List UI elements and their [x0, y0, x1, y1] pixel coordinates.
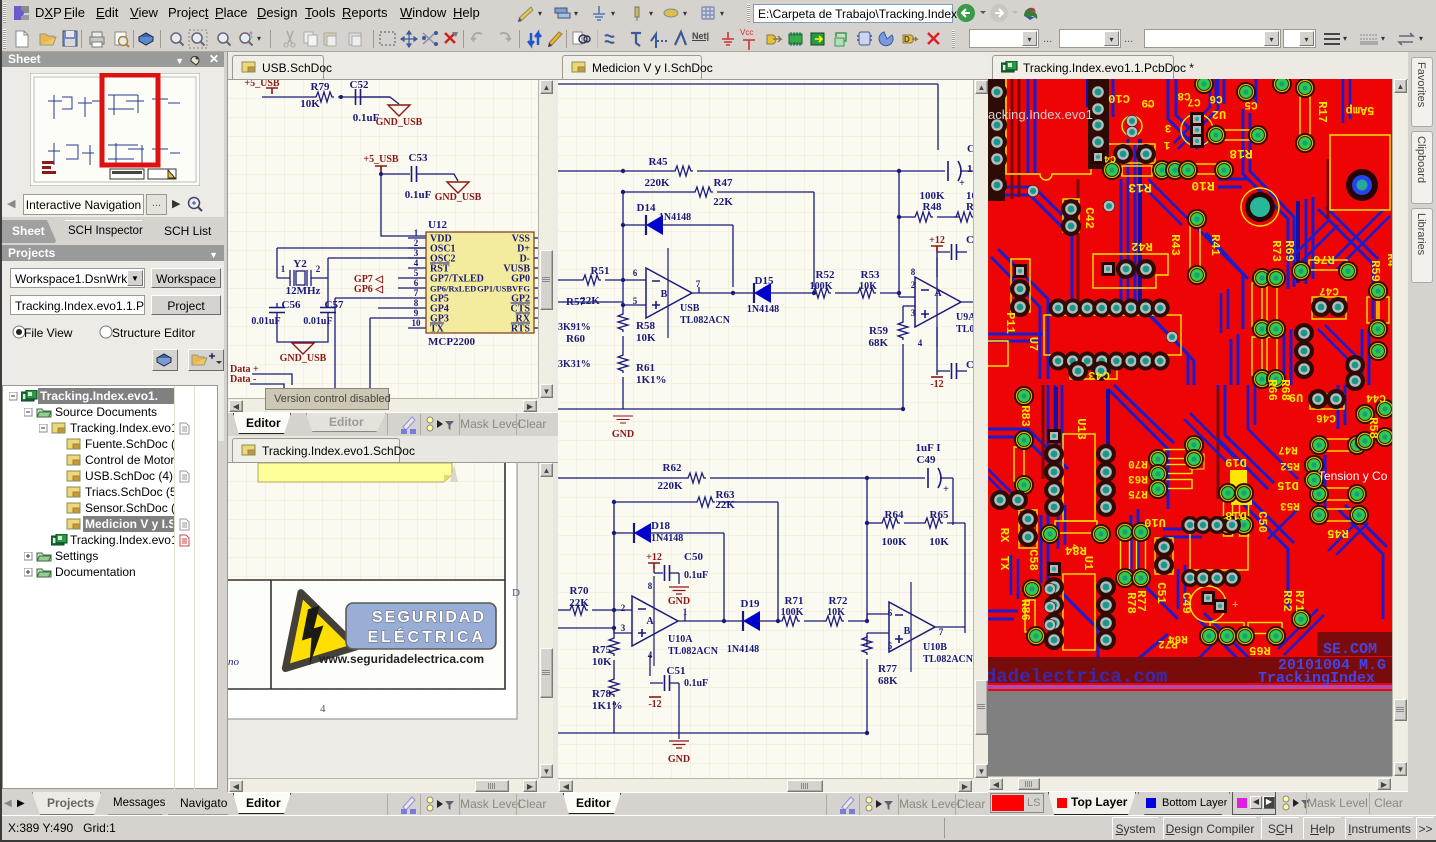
svg-text:1N4148: 1N4148 [651, 533, 683, 544]
svg-text:+12: +12 [646, 552, 662, 563]
svg-text:C43: C43 [1088, 368, 1110, 382]
svg-text:U9A: U9A [956, 312, 973, 323]
svg-text:R43: R43 [1168, 234, 1182, 256]
svg-text:+: + [1146, 102, 1152, 113]
svg-text:100K: 100K [810, 281, 833, 292]
svg-text:R72: R72 [829, 595, 848, 607]
svg-text:10K: 10K [300, 98, 320, 110]
svg-text:D18: D18 [1225, 508, 1247, 522]
svg-text:SE.COM: SE.COM [1323, 641, 1377, 658]
svg-text:R65: R65 [1249, 643, 1271, 657]
svg-text:R71: R71 [785, 595, 804, 607]
svg-text:U2: U2 [1212, 107, 1226, 121]
svg-text:GP1/USBVFG: GP1/USBVFG [477, 284, 530, 294]
svg-text:5Amp: 5Amp [1346, 103, 1375, 117]
svg-text:Tension y Co: Tension y Co [1318, 469, 1388, 483]
svg-text:C4: C4 [966, 234, 973, 246]
svg-text:R72: R72 [1158, 637, 1178, 649]
svg-text:U1: U1 [1081, 556, 1095, 570]
svg-text:no: no [228, 656, 240, 668]
svg-text:C51: C51 [667, 665, 686, 677]
svg-text:4: 4 [320, 703, 326, 715]
svg-text:P11: P11 [1003, 312, 1017, 334]
svg-text:U9: U9 [1289, 390, 1303, 404]
svg-text:6: 6 [633, 268, 638, 278]
svg-text:D18: D18 [651, 520, 670, 532]
svg-text:D15: D15 [755, 275, 774, 287]
svg-text:1: 1 [683, 607, 688, 617]
svg-text:C49: C49 [1179, 592, 1193, 614]
svg-text:ELÉCTRICA: ELÉCTRICA [367, 627, 486, 646]
svg-text:68K: 68K [868, 337, 888, 349]
svg-text:R45: R45 [649, 156, 668, 168]
svg-text:C53: C53 [409, 152, 428, 164]
svg-text:R62: R62 [663, 462, 682, 474]
svg-text:www.seguridadelectrica.com: www.seguridadelectrica.com [318, 652, 484, 666]
svg-text:RX: RX [997, 528, 1011, 543]
svg-text:220K: 220K [657, 480, 683, 492]
svg-text:RTS: RTS [511, 324, 531, 335]
svg-text:3: 3 [1164, 121, 1171, 133]
svg-text:D19: D19 [1225, 455, 1247, 469]
svg-text:R64: R64 [885, 509, 904, 521]
svg-text:R45: R45 [1327, 526, 1349, 540]
svg-text:3: 3 [911, 308, 916, 318]
svg-text:-12: -12 [648, 699, 661, 710]
svg-text:GND_USB: GND_USB [376, 117, 423, 128]
svg-text:R83: R83 [1018, 405, 1032, 427]
svg-text:U10A: U10A [668, 634, 693, 645]
svg-text:10K: 10K [929, 536, 949, 548]
svg-text:GP6 ◁: GP6 ◁ [354, 284, 383, 295]
svg-text:0.1uF: 0.1uF [684, 678, 708, 689]
svg-text:R47: R47 [1278, 443, 1298, 455]
svg-text:2: 2 [621, 603, 626, 613]
svg-text:4: 4 [414, 258, 419, 268]
svg-text:R77: R77 [878, 663, 897, 675]
svg-text:R66: R66 [1265, 379, 1279, 401]
svg-text:R70: R70 [1128, 457, 1148, 469]
svg-text:TL08: TL08 [956, 324, 973, 335]
svg-text:10: 10 [412, 318, 422, 328]
svg-text:R75: R75 [592, 644, 611, 656]
svg-text:C50: C50 [1255, 511, 1269, 533]
svg-text:R71: R71 [1292, 590, 1306, 612]
svg-text:R65: R65 [930, 509, 949, 521]
svg-text:6: 6 [414, 278, 419, 288]
svg-text:0.1uF: 0.1uF [684, 570, 708, 581]
svg-text:TL082ACN: TL082ACN [923, 654, 973, 665]
svg-text:+: + [959, 178, 965, 189]
svg-text:5: 5 [414, 268, 419, 278]
svg-text:U12: U12 [428, 219, 447, 231]
svg-text:R53: R53 [861, 269, 880, 281]
svg-text:TX: TX [430, 324, 445, 335]
svg-text:0.1uF: 0.1uF [405, 189, 432, 201]
svg-text:R42: R42 [1131, 239, 1153, 253]
svg-text:R75: R75 [1128, 487, 1148, 499]
svg-text:acking.Index.evo1: acking.Index.evo1 [988, 107, 1093, 122]
svg-text:R4: R4 [966, 201, 973, 213]
svg-text:R60: R60 [566, 333, 585, 345]
svg-text:1uF I: 1uF I [916, 442, 941, 454]
svg-text:4: 4 [918, 338, 923, 348]
svg-text:R52: R52 [1280, 459, 1300, 471]
svg-text:GND: GND [668, 754, 690, 765]
svg-text:1N4148: 1N4148 [747, 304, 779, 315]
svg-text:100K: 100K [781, 607, 804, 618]
svg-text:R52: R52 [816, 269, 835, 281]
svg-text:GP6/RxLED: GP6/RxLED [430, 284, 476, 294]
svg-text:Y2: Y2 [293, 258, 307, 270]
svg-text:R73: R73 [1269, 240, 1283, 262]
svg-text:R63: R63 [1128, 472, 1148, 484]
svg-text:R41: R41 [1208, 234, 1222, 256]
svg-text:R78: R78 [1124, 592, 1138, 614]
svg-text:4: 4 [1068, 544, 1079, 550]
svg-text:0.01uF: 0.01uF [251, 316, 280, 327]
svg-text:C46: C46 [1316, 411, 1336, 423]
svg-text:Data -: Data - [230, 374, 256, 385]
svg-text:SEGURIDAD: SEGURIDAD [372, 609, 486, 626]
svg-text:R58: R58 [636, 320, 655, 332]
svg-text:+: + [943, 484, 949, 495]
svg-text:D: D [512, 587, 520, 599]
svg-text:U10B: U10B [923, 642, 947, 653]
svg-text:U10: U10 [1144, 515, 1166, 529]
svg-text:C10: C10 [1108, 91, 1130, 105]
svg-text:C4: C4 [966, 359, 973, 371]
svg-text:D19: D19 [741, 598, 760, 610]
svg-text:R53: R53 [1280, 499, 1300, 511]
svg-text:B: B [904, 626, 911, 637]
svg-text:R48: R48 [923, 201, 942, 213]
svg-text:R59: R59 [1368, 260, 1382, 282]
svg-text:TL082ACN: TL082ACN [680, 315, 731, 326]
svg-text:22K: 22K [715, 499, 735, 511]
svg-text:R51: R51 [591, 265, 610, 277]
svg-text:R18: R18 [1229, 146, 1253, 161]
svg-text:10K: 10K [827, 607, 845, 618]
svg-text:22K: 22K [713, 196, 733, 208]
svg-text:12MHz: 12MHz [286, 285, 321, 297]
svg-text:D15: D15 [1277, 478, 1299, 492]
svg-text:3K31%: 3K31% [558, 359, 591, 370]
svg-text:C57: C57 [325, 299, 344, 311]
svg-text:R17: R17 [1315, 101, 1329, 123]
svg-text:3K91%: 3K91% [558, 322, 591, 333]
svg-text:10K: 10K [592, 656, 612, 668]
svg-text:R78: R78 [592, 688, 611, 700]
svg-text:TX: TX [997, 556, 1011, 571]
svg-text:7: 7 [696, 279, 701, 289]
svg-text:MCP2200: MCP2200 [428, 336, 476, 348]
svg-text:C51: C51 [1154, 582, 1168, 604]
svg-text:6: 6 [888, 608, 893, 618]
svg-text:4: 4 [648, 650, 653, 660]
svg-text:R69: R69 [1282, 240, 1296, 262]
svg-text:R58: R58 [1366, 417, 1380, 439]
svg-text:C5: C5 [1244, 98, 1258, 110]
svg-text:C6: C6 [1209, 92, 1222, 104]
svg-text:D14: D14 [637, 202, 656, 214]
svg-text:R4: R4 [1384, 253, 1392, 267]
svg-text:10K: 10K [636, 332, 656, 344]
svg-text:3: 3 [414, 248, 419, 258]
svg-text:C47: C47 [1319, 284, 1339, 296]
svg-text:68K: 68K [878, 675, 898, 687]
svg-text:22K: 22K [569, 597, 589, 609]
svg-text:9: 9 [414, 308, 419, 318]
svg-text:C58: C58 [1026, 549, 1040, 571]
svg-text:2: 2 [414, 238, 419, 248]
svg-text:R70: R70 [570, 585, 589, 597]
svg-text:8: 8 [414, 298, 419, 308]
svg-text:U13: U13 [1074, 418, 1088, 440]
svg-text:GND_USB: GND_USB [435, 192, 482, 203]
svg-text:A: A [646, 616, 654, 627]
svg-text:TrackingIndex: TrackingIndex [1258, 670, 1375, 687]
svg-text:TL082ACN: TL082ACN [668, 646, 719, 657]
svg-text:R59: R59 [869, 325, 888, 337]
svg-text:1N4148: 1N4148 [727, 644, 759, 655]
svg-text:7: 7 [414, 288, 419, 298]
svg-text:C44: C44 [1366, 391, 1386, 403]
svg-text:R13: R13 [1128, 180, 1152, 195]
svg-text:dadelectrica.com: dadelectrica.com [988, 666, 1167, 688]
svg-text:R10: R10 [1191, 178, 1215, 193]
svg-text:U7: U7 [1026, 337, 1040, 351]
svg-text:2: 2 [316, 264, 321, 274]
svg-text:GND: GND [668, 596, 690, 607]
svg-text:R76: R76 [1313, 252, 1335, 266]
svg-text:10K: 10K [859, 281, 877, 292]
svg-text:1N4148: 1N4148 [659, 212, 691, 223]
svg-text:GND_USB: GND_USB [280, 353, 327, 364]
svg-text:8: 8 [648, 581, 653, 591]
svg-text:C4: C4 [1104, 152, 1116, 163]
svg-text:100K: 100K [881, 536, 907, 548]
svg-text:GND: GND [612, 429, 634, 440]
svg-text:R61: R61 [636, 362, 655, 374]
svg-text:220K: 220K [644, 177, 670, 189]
svg-text:C49: C49 [917, 454, 936, 466]
svg-text:C50: C50 [684, 551, 703, 563]
svg-text:R62: R62 [1280, 590, 1294, 612]
svg-text:1K1%: 1K1% [592, 700, 623, 712]
svg-text:1: 1 [1163, 138, 1170, 150]
svg-text:0.01uF: 0.01uF [303, 316, 332, 327]
svg-text:5: 5 [633, 296, 638, 306]
svg-text:1: 1 [414, 228, 419, 238]
svg-text:R79: R79 [311, 81, 330, 93]
svg-text:1: 1 [281, 264, 286, 274]
svg-text:USB: USB [680, 303, 700, 314]
svg-text:R57: R57 [566, 296, 585, 308]
svg-text:A: A [934, 288, 942, 299]
svg-text:2: 2 [911, 280, 916, 290]
svg-text:R86: R86 [1018, 599, 1032, 621]
svg-text:B: B [661, 289, 668, 300]
svg-text:C56: C56 [282, 299, 301, 311]
svg-text:1K1%: 1K1% [636, 374, 667, 386]
svg-text:+5_USB: +5_USB [363, 154, 398, 165]
svg-text:-12: -12 [930, 379, 943, 390]
svg-text:+: + [1232, 600, 1239, 612]
svg-text:C52: C52 [350, 80, 369, 91]
svg-text:7: 7 [939, 627, 944, 637]
svg-text:5: 5 [888, 641, 893, 651]
svg-text:8: 8 [911, 267, 916, 277]
svg-text:D: D [904, 35, 910, 44]
svg-text:C42: C42 [1082, 207, 1096, 229]
svg-text:R47: R47 [714, 177, 733, 189]
svg-text:C7: C7 [1187, 95, 1200, 107]
svg-text:+12: +12 [929, 235, 945, 246]
svg-text:3: 3 [621, 623, 626, 633]
